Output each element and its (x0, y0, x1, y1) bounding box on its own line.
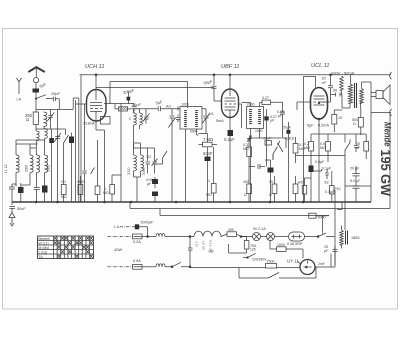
IF transformer 2 frame (247, 107, 264, 129)
svg-text:UCH 11: UCH 11 (85, 64, 104, 70)
capacitor osc trimmer (143, 112, 150, 124)
switch mid (155, 151, 168, 164)
capacitor bottom a (34, 185, 40, 202)
capacitor 50 (331, 93, 343, 97)
svg-text:UY 11: UY 11 (287, 259, 299, 264)
wire column112 (96, 130, 105, 202)
switch small 90 (91, 168, 95, 175)
wire mains vertical (189, 237, 191, 268)
wire UBF grid (214, 89, 222, 102)
resistor 7500 (266, 263, 277, 268)
trimmer pot RL2 (247, 136, 252, 142)
output transformer core (355, 83, 357, 108)
coil L2 left (16, 155, 19, 173)
svg-text:1855: 1855 (351, 236, 359, 240)
svg-text:10: 10 (338, 116, 342, 120)
speaker magnet (376, 91, 383, 99)
svg-text:220/240V: 220/240V (252, 258, 267, 262)
capacitor block small (152, 192, 158, 197)
coil RF choke1 (156, 234, 165, 237)
wire right top link2 (311, 134, 366, 143)
coupling to UCL grid (287, 122, 289, 202)
switch voltage (305, 233, 336, 237)
wire right link low (305, 176, 312, 202)
wire UCH11 grid left (76, 103, 87, 105)
svg-text:MΩ: MΩ (61, 195, 67, 199)
wire UCL11 top step (304, 76, 316, 87)
svg-text:2000: 2000 (247, 103, 255, 107)
capacitor 0.1uF det (264, 116, 268, 120)
wire right col 356 (296, 156, 372, 237)
wire grid2 line (104, 103, 134, 105)
svg-text:400: 400 (228, 228, 234, 232)
capacitor 5uF coupling (136, 106, 180, 111)
mains lead row2 dashes (108, 266, 133, 268)
capacitor 50pF (132, 104, 137, 114)
antenna lead insulator (34, 78, 39, 83)
resistor col 295 lower (293, 184, 298, 194)
svg-text:1000: 1000 (182, 103, 190, 107)
svg-text:0.38 SRP: 0.38 SRP (287, 242, 303, 246)
speaker wires (371, 93, 376, 97)
wire UY11 right (315, 254, 335, 268)
svg-text:1(MΩ): 1(MΩ) (285, 137, 295, 141)
IF1 coil A (184, 110, 187, 127)
capacitor block left2 (18, 187, 24, 193)
capacitor block 50.5 (49, 138, 54, 143)
svg-text:5000pF: 5000pF (141, 221, 154, 225)
svg-text:MΩ: MΩ (320, 146, 326, 150)
svg-text:63nF: 63nF (264, 137, 272, 141)
capacitor padder left (9, 184, 16, 202)
svg-text:50pF: 50pF (132, 102, 141, 107)
svg-text:1/18mA: 1/18mA (83, 122, 95, 126)
resistor 7M horizontal (203, 142, 213, 147)
svg-text:MΩ: MΩ (103, 191, 109, 195)
output transformer secondary (360, 89, 364, 104)
svg-text:5.0 μF: 5.0 μF (350, 179, 361, 183)
coil antenna L1 (44, 112, 47, 126)
switch det (273, 141, 280, 160)
svg-text:0.2mA: 0.2mA (318, 124, 329, 128)
capacitor dark mid (69, 137, 74, 144)
coil osc top pair (134, 113, 137, 125)
resistor 500 box (358, 118, 363, 128)
capacitor 20uF (353, 166, 360, 180)
wire UBF cathode column (229, 118, 231, 202)
svg-text:Ω: Ω (269, 193, 272, 197)
capacitor 6pF antenna (33, 89, 40, 93)
wire HT top bus (80, 74, 389, 76)
resistor right low1 (302, 186, 306, 195)
svg-text:50: 50 (269, 180, 273, 184)
coil L3 (30, 155, 33, 173)
wire bus2 (130, 202, 390, 209)
svg-text:0.2μF: 0.2μF (224, 137, 235, 142)
capacitor trimmer mid2 (152, 158, 158, 168)
svg-text:50μF: 50μF (283, 126, 291, 130)
switch 220/240 (243, 254, 256, 258)
resistor 0.1M bottom (61, 185, 66, 195)
resistor grid box UCH (101, 117, 111, 125)
lamp scale1 (253, 233, 261, 241)
capacitor padder mid (146, 158, 151, 168)
svg-text:L (Lg): L (Lg) (39, 250, 48, 254)
svg-text:L6 1: L6 1 (195, 241, 199, 247)
tube UCL11 electrodes (314, 96, 326, 105)
resistor col 213 (211, 184, 216, 194)
svg-text:UBF 11: UBF 11 (221, 64, 239, 70)
wire right top link (371, 75, 391, 113)
wire column 97 (97, 140, 99, 202)
svg-text:2mF: 2mF (318, 262, 325, 266)
svg-text:MΩ: MΩ (206, 193, 212, 197)
capacitor LA input (135, 224, 139, 229)
switch band left (64, 135, 69, 154)
capacitor 28pF (46, 97, 79, 110)
svg-text:5mA: 5mA (216, 119, 224, 123)
heater dropper zigzag (340, 226, 344, 249)
resistor 400 (227, 232, 237, 237)
resistor 0.2M right (309, 142, 314, 152)
table rundfunk grid (38, 236, 94, 259)
svg-text:0.27: 0.27 (262, 96, 269, 100)
svg-text:M (Ms): M (Ms) (39, 246, 50, 250)
svg-text:5μF: 5μF (307, 124, 314, 128)
junction mains (240, 236, 242, 238)
svg-text:MΩ: MΩ (304, 146, 310, 150)
resistor 10 box (332, 115, 337, 125)
svg-text:15000: 15000 (119, 107, 128, 111)
brand text Mende 195 GW (378, 122, 394, 197)
tube UCH11 electrodes (90, 90, 103, 116)
coil pair mid1 (134, 155, 137, 171)
wire transformer top (351, 75, 372, 110)
junction dots ground (35, 201, 37, 203)
capacitor 25uF (333, 246, 338, 256)
wire node A join (36, 109, 73, 202)
capacitor tuning main (54, 133, 61, 142)
svg-text:L1 L2: L1 L2 (4, 164, 8, 173)
svg-text:5V 0.1A: 5V 0.1A (253, 227, 266, 231)
switch antenna range (36, 95, 46, 99)
tube UBF11 electrodes (225, 89, 237, 118)
svg-text:200V · 50mA: 200V · 50mA (331, 71, 355, 76)
svg-text:A/1: A/1 (166, 105, 171, 109)
wire osc drop (115, 104, 121, 123)
svg-text:1/2: 1/2 (146, 155, 151, 159)
capacitor trimmer A (47, 109, 54, 122)
svg-text:2000: 2000 (47, 165, 51, 172)
switch bottom (239, 267, 316, 278)
coil osc L4 (37, 155, 40, 173)
coil ant lower b (45, 129, 48, 141)
fuse 0.2A (133, 234, 143, 239)
fuse 0.5A (133, 264, 143, 269)
tuning capacitor AW2 (203, 110, 210, 125)
capacitor 50uF (353, 180, 360, 194)
svg-text:A/1: A/1 (209, 112, 214, 116)
svg-text:20 μF: 20 μF (350, 167, 360, 171)
coil RF choke2 (156, 264, 165, 267)
svg-text:7500: 7500 (267, 259, 275, 263)
antenna aux terminal (17, 78, 22, 94)
ground earth symbol (9, 213, 15, 227)
svg-text:Ω: Ω (353, 122, 356, 126)
wire screen drop (303, 76, 305, 202)
wire oscillator box (110, 82, 188, 109)
wire 283 col (249, 138, 286, 148)
capacitor 63nF block (205, 157, 211, 162)
IF2 coil A (249, 109, 252, 125)
svg-text:1000: 1000 (255, 129, 263, 133)
tuning capacitor AW (168, 109, 175, 128)
IF1 coil B (195, 110, 198, 127)
capacitor 200pF (127, 97, 131, 101)
svg-text:0.5μF: 0.5μF (315, 160, 325, 164)
resistor 1M mid (110, 185, 115, 195)
resistor zigzag dropper (340, 76, 344, 90)
barretter coil big (194, 231, 221, 236)
svg-text:1000: 1000 (277, 243, 285, 247)
resistor col 295 (293, 144, 298, 154)
svg-text:nF: nF (322, 81, 327, 85)
svg-text:UC 4 7.5: UC 4 7.5 (209, 240, 213, 252)
svg-text:63nF: 63nF (203, 151, 213, 156)
wire L2 (16, 144, 38, 186)
svg-text:125: 125 (250, 248, 256, 252)
connector right top (390, 72, 392, 79)
wire down to coils (35, 129, 37, 131)
svg-text:0.1μF: 0.1μF (325, 190, 335, 194)
svg-text:μF: μF (278, 114, 283, 118)
svg-text:Bereich: Bereich (39, 237, 51, 241)
svg-text:0.5A: 0.5A (133, 259, 141, 263)
capacitor block bottom b (42, 186, 48, 193)
resistor 4M bottom (78, 185, 83, 195)
capacitor 20nF (328, 75, 333, 95)
IF2 coil B (258, 109, 261, 125)
capacitor 0.1uF block2 (268, 168, 274, 173)
tube UY11 envelope (300, 260, 315, 275)
resistor 5000 bus3 (309, 213, 316, 218)
indicator urdox oval (289, 232, 305, 241)
svg-text:28pF: 28pF (50, 91, 60, 96)
capacitor right small (354, 141, 359, 152)
wire anode UCL to transformer (341, 90, 344, 104)
wire mid links (134, 143, 155, 202)
lamp scale2 (267, 233, 275, 241)
capacitor 0.5uF block (309, 166, 314, 173)
svg-text:I.A: I.A (17, 98, 22, 102)
capacitor 50nF ground (10, 202, 16, 213)
wire drop 335 (334, 190, 336, 202)
table X marks (54, 237, 93, 240)
resistor col 274 lower (272, 184, 277, 194)
capacitor 0.2uF (228, 130, 234, 136)
svg-text:40W: 40W (114, 247, 122, 252)
capacitor 50pF UBF grid (212, 75, 217, 88)
wire bus3 (160, 209, 329, 216)
svg-text:7 MΩ: 7 MΩ (203, 137, 213, 142)
svg-text:W (L1): W (L1) (39, 241, 49, 245)
coil ant lower a (36, 131, 39, 155)
wire link top coils (16, 140, 45, 148)
wire tuning frame (75, 100, 77, 202)
IF1 caps (176, 115, 180, 123)
svg-text:Mende: Mende (383, 122, 393, 147)
svg-text:1: 1 (208, 179, 210, 183)
wire tuning frame b (78, 98, 80, 202)
svg-text:A/5: A/5 (298, 181, 303, 185)
wire speaker return drop (370, 110, 372, 202)
svg-text:5000: 5000 (190, 130, 198, 134)
svg-text:Ω: Ω (26, 117, 29, 122)
wire anode link UCH-UBF (96, 87, 214, 89)
svg-text:L A: L A (114, 225, 120, 229)
speaker cone (383, 85, 390, 105)
output transformer primary (348, 84, 352, 104)
resistor col 249 upper (247, 147, 252, 157)
resistor col 249 lower (247, 184, 252, 194)
heater dropper plates (346, 231, 348, 245)
svg-text:4MΩ: 4MΩ (77, 180, 85, 184)
antenna mast (28, 67, 45, 72)
wire column121 (120, 122, 122, 202)
switch mains (172, 262, 190, 267)
wire UBF11 anode (229, 75, 231, 89)
volume pot arrow (278, 143, 284, 152)
svg-text:50nF: 50nF (17, 207, 26, 211)
wire column 84.5 (84, 104, 86, 202)
svg-text:Ω: Ω (244, 193, 247, 197)
wire UCL grid (297, 102, 311, 110)
ground bus (12, 201, 371, 203)
tube UCH11 envelope (87, 90, 107, 122)
coil osc L5 (45, 155, 48, 173)
wire UCL cathode (318, 119, 320, 202)
wire right edge drop (389, 112, 391, 209)
connector right bottom (390, 109, 392, 116)
svg-text:195 GW: 195 GW (378, 150, 394, 197)
wire antenna lead (35, 99, 37, 113)
capacitor col 249-258 (249, 164, 265, 169)
resistor input (33, 112, 38, 125)
tube UY11 electrodes (304, 261, 312, 268)
svg-text:MΩ: MΩ (243, 147, 249, 151)
resistor 750 vertical (244, 241, 249, 250)
tube UBF11 envelope (222, 89, 239, 118)
svg-text:2000: 2000 (25, 165, 29, 172)
resistor right low2 (330, 186, 334, 195)
wire left section frame (80, 75, 82, 202)
svg-text:0.2A: 0.2A (133, 240, 141, 244)
capacitor small 87 (82, 167, 87, 177)
svg-text:50: 50 (333, 89, 337, 93)
svg-text:UCL 11: UCL 11 (311, 63, 329, 69)
mains lead row1 dashes (108, 236, 133, 238)
capacitor 50uF coupling (286, 130, 290, 134)
IF transformer 1 frame (180, 107, 202, 130)
svg-text:5000: 5000 (142, 167, 146, 175)
wire UCH11 anode top (95, 75, 97, 90)
svg-text:0.1: 0.1 (61, 180, 66, 184)
svg-text:0.1μF: 0.1μF (322, 167, 332, 171)
capacitor det2 (280, 110, 285, 138)
wire 335 col (334, 237, 336, 266)
svg-text:PK1: PK1 (335, 187, 342, 191)
svg-text:UC 4 7: UC 4 7 (202, 240, 206, 250)
tube UCL11 envelope (311, 88, 328, 120)
resistor det load (262, 100, 271, 104)
svg-text:2000: 2000 (127, 167, 131, 175)
wire 241 col (241, 127, 243, 129)
capacitor 0.1uF right (314, 169, 329, 179)
resistor col 97 (95, 186, 100, 195)
resistor 0.5M right (326, 142, 331, 152)
capacitor block 4+5uF (152, 179, 158, 184)
svg-text:B2: B2 (325, 181, 329, 185)
resistor 1500 box (119, 107, 128, 111)
svg-text:400: 400 (243, 180, 249, 184)
capacitor 63nF2 box (265, 141, 272, 145)
svg-text:5000: 5000 (318, 216, 326, 220)
wire osc trimmer stub (145, 109, 147, 112)
wire transformer bottom (342, 102, 361, 108)
capacitor 50nF mains (188, 244, 193, 254)
resistor right edge (364, 142, 369, 152)
switch right (345, 143, 350, 157)
resistor 1000 (277, 247, 287, 252)
